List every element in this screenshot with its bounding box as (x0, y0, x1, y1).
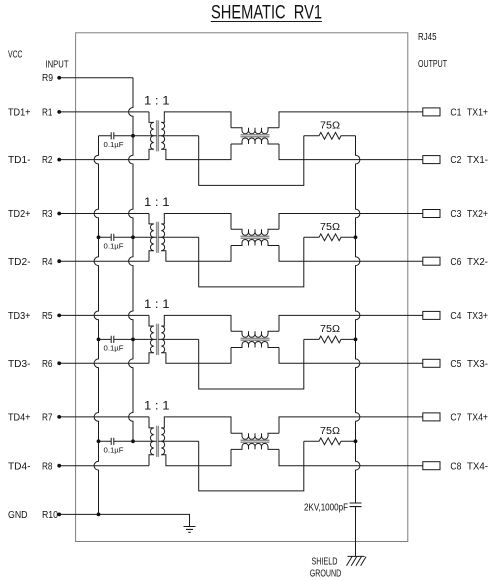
transformer T2 1:1 (133, 214, 199, 262)
wire T1 secondary top to choke L1 (161, 112, 231, 128)
svg-text:R9: R9 (42, 73, 53, 84)
capacitor 0.1uF ch1 (99, 132, 134, 139)
junction shield bus / 75R ch4 (354, 439, 358, 443)
pin R3 dot (57, 212, 61, 216)
wire secondary center tap to 75R ch4 (199, 441, 304, 491)
capacitor 0.1uF ch4 (99, 438, 134, 445)
wire choke L3 top to pin C4 (279, 315, 423, 331)
svg-text:1 : 1: 1 : 1 (144, 96, 170, 108)
common-mode choke L2 (231, 229, 279, 245)
wire T4 secondary top to choke L4 (161, 417, 231, 433)
title underline (211, 21, 322, 23)
svg-text:R1: R1 (42, 108, 53, 119)
svg-text:2KV,1000pF: 2KV,1000pF (304, 502, 348, 513)
ground symbol (signal earth) (184, 527, 196, 533)
wire T2 secondary top to choke L2 (161, 214, 231, 230)
wire choke L2 top to pin C3 (279, 214, 423, 230)
junction GND bus / R10 wire (97, 513, 101, 517)
svg-text:TD4-: TD4- (8, 461, 31, 472)
capacitor 2KV,1000pF (350, 503, 362, 507)
svg-text:TD4+: TD4+ (8, 413, 31, 424)
wire 2KV cap to shield ground (355, 507, 357, 557)
svg-text:R8: R8 (42, 461, 53, 472)
svg-text:GND: GND (8, 510, 28, 521)
svg-text:OUTPUT: OUTPUT (418, 59, 447, 70)
svg-text:C4: C4 (450, 311, 461, 322)
svg-text:1 : 1: 1 : 1 (144, 197, 170, 209)
svg-text:75Ω: 75Ω (320, 426, 341, 437)
svg-text:TD3-: TD3- (8, 359, 31, 370)
svg-text:TD2+: TD2+ (8, 209, 31, 220)
svg-text:C5: C5 (450, 359, 461, 370)
svg-text:0.1µF: 0.1µF (104, 344, 124, 353)
resistor 75 Ohm ch3 (304, 336, 356, 343)
wire choke L4 top to pin C7 (279, 417, 423, 433)
connector pin C5 (423, 359, 440, 367)
svg-text:R4: R4 (42, 257, 53, 268)
svg-text:R10: R10 (42, 510, 58, 521)
junction VCC-bus / center tap ch3 (131, 338, 135, 342)
junction GND-bus / cap ch3 (97, 338, 101, 342)
pin R5 dot (57, 314, 61, 318)
svg-text:1 : 1: 1 : 1 (144, 299, 170, 311)
svg-text:R7: R7 (42, 413, 53, 424)
svg-text:R2: R2 (42, 155, 53, 166)
wire R9 to VCC bus (59, 77, 133, 79)
wire R10 / GND to earth (59, 514, 189, 526)
svg-text:R3: R3 (42, 209, 53, 220)
junction GND-bus / cap ch4 (97, 439, 101, 443)
svg-text:SHEMATIC RV1: SHEMATIC RV1 (211, 2, 322, 24)
transformer T3 1:1 (133, 315, 199, 363)
svg-text:C2: C2 (450, 155, 461, 166)
transformer T1 1:1 (133, 112, 199, 160)
svg-text:C6: C6 (450, 257, 461, 268)
svg-text:SHIELD: SHIELD (312, 556, 338, 567)
svg-text:TD3+: TD3+ (8, 311, 31, 322)
svg-text:TD1+: TD1+ (8, 108, 31, 119)
pin R6 dot (57, 361, 61, 365)
svg-text:0.1µF: 0.1µF (104, 242, 124, 251)
svg-text:TX3+: TX3+ (467, 311, 488, 322)
junction VCC-bus / center tap ch1 (131, 134, 135, 138)
connector pin C3 (423, 210, 440, 218)
svg-text:TX4+: TX4+ (467, 413, 488, 424)
wire R8 to transformer T4 primary bottom (59, 465, 149, 467)
wire R3 to transformer T2 primary top (59, 213, 149, 215)
wire choke L2 bottom to pin C6 (279, 246, 423, 262)
GND decoupling bus (vertical, hops) (94, 136, 98, 515)
wire T3 secondary top to choke L3 (161, 315, 231, 331)
common-mode choke L4 (231, 433, 279, 449)
wire R7 to transformer T4 primary top (59, 416, 149, 418)
svg-text:INPUT: INPUT (46, 59, 69, 70)
svg-text:TX2+: TX2+ (467, 209, 488, 220)
common-mode choke L1 (231, 128, 279, 144)
svg-text:TD1-: TD1- (8, 155, 31, 166)
wire T1 secondary bottom to choke L1 (161, 144, 231, 160)
wire R4 to transformer T2 primary bottom (59, 260, 149, 262)
wire secondary center tap to 75R ch3 (199, 339, 304, 389)
svg-text:TX1-: TX1- (467, 155, 488, 166)
transformer T4 1:1 (133, 417, 199, 466)
VCC center-tap bus (vertical, hops) (129, 78, 133, 442)
connector pin C7 (423, 413, 440, 421)
svg-text:C7: C7 (450, 413, 461, 424)
svg-text:75Ω: 75Ω (320, 120, 341, 131)
connector pin C6 (423, 257, 440, 265)
svg-text:C3: C3 (450, 209, 461, 220)
svg-text:C8: C8 (450, 461, 461, 472)
shield termination bus (vertical, hops) (356, 136, 360, 503)
svg-text:TD2-: TD2- (8, 257, 31, 268)
svg-text:TX3-: TX3- (467, 359, 488, 370)
svg-text:TX1+: TX1+ (467, 108, 488, 119)
connector pin C1 (423, 108, 440, 116)
wire R6 to transformer T3 primary bottom (59, 362, 149, 364)
pin R7 dot (57, 415, 61, 419)
pin R10 dot (57, 513, 61, 517)
svg-text:VCC: VCC (8, 50, 23, 61)
svg-text:RJ45: RJ45 (418, 32, 437, 43)
shield ground symbol (chassis) (347, 556, 367, 565)
capacitor 0.1uF ch2 (99, 234, 134, 241)
resistor 75 Ohm ch1 (304, 132, 356, 139)
svg-text:R6: R6 (42, 359, 53, 370)
wire choke L1 top to pin C1 (279, 112, 423, 128)
wire choke L1 bottom to pin C2 (279, 144, 423, 160)
wire secondary center tap to 75R ch1 (199, 136, 304, 186)
svg-text:0.1µF: 0.1µF (104, 140, 124, 149)
resistor 75 Ohm ch2 (304, 234, 356, 241)
wire T3 secondary bottom to choke L3 (161, 348, 231, 364)
wire choke L3 bottom to pin C5 (279, 348, 423, 364)
junction shield bus / 75R ch3 (354, 338, 358, 342)
capacitor 0.1uF ch3 (99, 336, 134, 343)
svg-text:GROUND: GROUND (310, 568, 342, 579)
pin R9 dot (57, 76, 61, 80)
svg-text:0.1µF: 0.1µF (104, 446, 124, 455)
junction shield bus / 75R ch2 (354, 235, 358, 239)
wire R1 to transformer T1 primary top (59, 111, 149, 113)
svg-text:R5: R5 (42, 311, 53, 322)
svg-text:C1: C1 (450, 108, 461, 119)
module boundary box (76, 33, 408, 542)
wire R5 to transformer T3 primary top (59, 314, 149, 316)
wire T4 secondary bottom to choke L4 (161, 449, 231, 465)
svg-text:75Ω: 75Ω (320, 222, 341, 233)
connector pin C2 (423, 156, 440, 164)
svg-text:75Ω: 75Ω (320, 324, 341, 335)
svg-text:TX2-: TX2- (467, 257, 488, 268)
pin R2 dot (57, 158, 61, 162)
svg-text:1 : 1: 1 : 1 (144, 401, 170, 413)
resistor 75 Ohm ch4 (304, 438, 356, 445)
common-mode choke L3 (231, 331, 279, 347)
pin R4 dot (57, 259, 61, 263)
junction VCC-bus / center tap ch4 (131, 439, 135, 443)
wire secondary center tap to 75R ch2 (199, 237, 304, 287)
junction VCC-bus / center tap ch2 (131, 235, 135, 239)
connector pin C8 (423, 462, 440, 470)
wire T2 secondary bottom to choke L2 (161, 246, 231, 262)
wire R2 to transformer T1 primary bottom (59, 159, 149, 161)
pin R1 dot (57, 110, 61, 114)
pin R8 dot (57, 464, 61, 468)
wire choke L4 bottom to pin C8 (279, 449, 423, 465)
svg-text:TX4-: TX4- (467, 461, 488, 472)
junction GND-bus / cap ch2 (97, 235, 101, 239)
connector pin C4 (423, 311, 440, 319)
